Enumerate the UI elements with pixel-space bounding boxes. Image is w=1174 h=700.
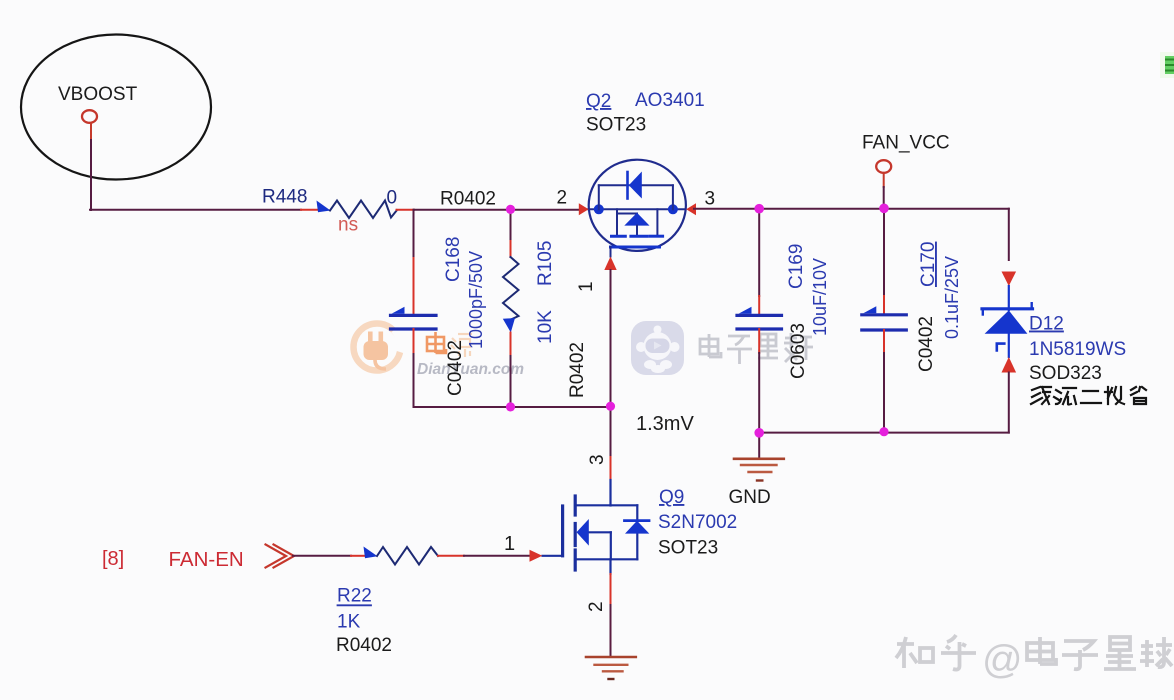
wire ground rail bottom right (759, 432, 1009, 434)
wire C168 branch vertical (413, 210, 415, 258)
svg-text:C168: C168 (443, 237, 464, 282)
svg-text:1N5819WS: 1N5819WS (1029, 339, 1126, 360)
svg-text:1: 1 (504, 533, 515, 555)
svg-text:DianYuan.com: DianYuan.com (417, 361, 524, 378)
pin arrow D12 bottom (up) (1002, 357, 1017, 373)
wire bottom rail (C168/R105/Q2 gate) (414, 406, 611, 408)
svg-text:R22: R22 (337, 586, 372, 607)
wire VBOOST vertical (90, 123, 92, 140)
svg-text:FAN-EN: FAN-EN (169, 548, 244, 571)
svg-text:R0402: R0402 (440, 189, 496, 210)
svg-text:2: 2 (586, 601, 607, 612)
svg-text:C0402: C0402 (916, 316, 937, 372)
ground GND symbol (758, 433, 760, 458)
capacitor C169 (737, 314, 782, 317)
wire R448 to Q2 pin2 (397, 209, 415, 211)
watermark dianyuan text 源 (faint) (451, 334, 472, 357)
wire VBOOST to R448 (90, 209, 301, 211)
wire C170 branch (883, 209, 885, 296)
wire C169 branch (758, 209, 760, 296)
wire FAN_VCC stem (883, 173, 885, 187)
svg-text:[8]: [8] (102, 548, 124, 570)
resistor R22 (364, 547, 378, 559)
wire Q2 pin1 down (610, 270, 612, 406)
svg-text:3: 3 (705, 189, 716, 210)
svg-text:0: 0 (387, 188, 398, 209)
watermark dianyuan text 电 (427, 332, 446, 353)
wire Q9 source down (609, 559, 611, 574)
diode D12 (schottky, pointing up) (982, 307, 1033, 310)
svg-text:10uF/10V: 10uF/10V (810, 258, 830, 336)
svg-text:D12: D12 (1029, 314, 1064, 335)
pin arrow Q2 pin1 (604, 257, 616, 271)
wire Q9 drain from rail (610, 406, 612, 457)
svg-text:3: 3 (587, 454, 608, 465)
pin arrow Q2 pin3 (686, 203, 696, 215)
svg-text:SOD323: SOD323 (1029, 363, 1102, 384)
ground under Q9 (586, 656, 636, 659)
pin arrow D12 top (down) (1002, 272, 1017, 287)
wire R22 to Q9 gate (438, 555, 464, 557)
wire FAN-EN to R22 (293, 555, 351, 557)
capacitor C168 (391, 314, 437, 317)
svg-text:FAN_VCC: FAN_VCC (862, 133, 950, 154)
svg-text:1: 1 (576, 281, 597, 292)
wire Q2 pin3 to FAN_VCC rail (694, 208, 1009, 210)
svg-text:0.1uF/25V: 0.1uF/25V (942, 256, 962, 339)
svg-text:C0402: C0402 (445, 340, 466, 396)
watermark robot icon (631, 321, 684, 375)
svg-text:Q2: Q2 (586, 91, 611, 112)
svg-text:R0402: R0402 (336, 635, 392, 656)
junction dots (506, 205, 515, 214)
svg-text:VBOOST: VBOOST (58, 84, 138, 105)
VBOOST bubble ellipse (21, 35, 211, 180)
watermark zhihu 知乎 @电子星球 (bottom right) (896, 635, 976, 670)
svg-text:SOT23: SOT23 (658, 538, 718, 559)
svg-text:R105: R105 (535, 241, 556, 286)
transistor Q2 AO3401 (P-MOSFET in circle) (588, 160, 686, 257)
wire R105 branch top (510, 210, 512, 241)
svg-text:1000pF/50V: 1000pF/50V (466, 251, 486, 349)
svg-text:@: @ (982, 638, 1023, 682)
svg-text:Q9: Q9 (659, 487, 684, 508)
off-page chevron (266, 545, 287, 568)
resistor R105 (503, 257, 519, 320)
svg-text:C170: C170 (918, 242, 939, 287)
svg-text:1.3mV: 1.3mV (636, 413, 694, 435)
terminal VBOOST (82, 110, 97, 123)
watermark text 电子星球 (center, gray) (700, 333, 813, 364)
svg-text:1K: 1K (337, 612, 361, 633)
terminal FAN_VCC (876, 160, 891, 173)
wire D12 branch top (1008, 209, 1010, 260)
transistor Q9 S2N7002 (N-MOSFET) (543, 505, 638, 559)
pin arrow Q2 pin2 (579, 203, 589, 215)
watermark dianyuan ring logo (354, 324, 402, 371)
svg-text:C169: C169 (786, 244, 807, 289)
svg-text:GND: GND (729, 487, 771, 508)
svg-text:C0603: C0603 (788, 323, 809, 379)
capacitor C170 (862, 313, 907, 316)
svg-text:R448: R448 (262, 187, 307, 208)
svg-text:AO3401: AO3401 (635, 90, 705, 111)
svg-text:S2N7002: S2N7002 (658, 512, 737, 533)
label 续流二极管 (1031, 387, 1146, 405)
svg-text:10K: 10K (535, 310, 556, 344)
green icon clipped at right edge (1160, 52, 1174, 78)
svg-text:SOT23: SOT23 (586, 115, 646, 136)
svg-text:2: 2 (557, 188, 568, 209)
pin arrow Q9 gate (530, 550, 543, 562)
svg-text:R0402: R0402 (567, 342, 588, 398)
